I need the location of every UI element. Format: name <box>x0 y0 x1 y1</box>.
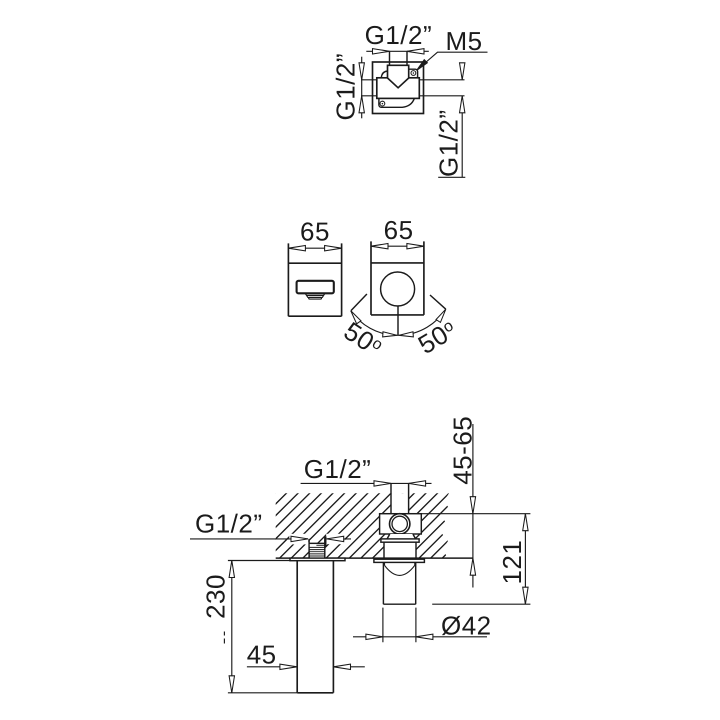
pipe bottom edge + ext line <box>297 692 333 694</box>
M5 leader and arrow <box>418 52 488 69</box>
label G1/2 left (rotated) <box>331 53 361 121</box>
arc center arrows <box>383 332 397 338</box>
main valve body rect <box>377 78 420 99</box>
spout slot <box>297 281 334 294</box>
left dimension line <box>361 57 363 119</box>
svg-text:Ø42: Ø42 <box>441 611 492 641</box>
stem extension lines (top G1/2 port) <box>390 51 408 65</box>
spout front square <box>288 243 341 316</box>
right screw tab <box>409 69 418 78</box>
label G1/2 right (rotated) <box>434 109 464 177</box>
swing arc <box>351 309 446 335</box>
neck trapezoid <box>387 534 416 539</box>
45-65 dimension <box>472 424 474 588</box>
outer square housing (plan view) <box>373 62 424 114</box>
svg-text:230: 230 <box>201 574 231 619</box>
spout threaded nipple <box>309 543 325 558</box>
dashes <box>223 632 225 644</box>
bottom-left tab with rounded corner and large arc <box>379 98 414 107</box>
aerator <box>305 294 325 298</box>
chrome tube <box>383 562 415 604</box>
body-top reference ext line <box>421 513 530 515</box>
left swing line <box>351 294 367 311</box>
left shoulder arc <box>381 71 387 78</box>
svg-text:G1/2”: G1/2” <box>365 20 433 50</box>
under-wall plate <box>374 559 425 562</box>
escutcheon <box>384 542 416 558</box>
svg-text:G1/2”: G1/2” <box>195 509 263 539</box>
spout G1/2 label + dimension <box>190 538 308 540</box>
valve front square <box>371 241 424 315</box>
valve ball (double circle) <box>390 514 410 534</box>
svg-text:G1/2”: G1/2” <box>331 53 361 121</box>
230 dimension <box>228 560 291 562</box>
top dimension line G1/2 <box>366 50 429 52</box>
foot line under rotated text <box>438 176 465 178</box>
wall bottom face line <box>276 557 474 559</box>
svg-text:M5: M5 <box>446 26 483 56</box>
V-notch top piece <box>388 65 409 88</box>
right dim lower arrow with tail <box>461 96 463 178</box>
valve body <box>380 514 422 534</box>
arc end arrows <box>349 309 361 323</box>
handle circle <box>381 272 415 306</box>
45 dimension <box>247 666 297 668</box>
right extension lines <box>419 80 464 96</box>
right dim upper arrow <box>461 63 463 80</box>
stem G1/2 dimension <box>301 482 432 484</box>
tube-bottom ext line <box>432 603 530 605</box>
diameter 42 dimension <box>383 608 416 643</box>
label 50deg left <box>339 316 388 363</box>
svg-text:G1/2”: G1/2” <box>304 454 372 484</box>
screw hole M5 (top-right) <box>411 71 416 76</box>
valve flange plate <box>381 539 419 542</box>
svg-text:45-65: 45-65 <box>448 416 478 485</box>
hatch clearings <box>391 493 409 514</box>
left extension lines <box>361 80 377 96</box>
121 dimension <box>524 514 526 605</box>
65 dimension (right square) <box>371 245 424 247</box>
handle center line <box>397 306 399 335</box>
label 50deg right <box>413 314 462 360</box>
spout pipe <box>297 561 333 693</box>
65 dimension (left square) <box>288 247 341 249</box>
spout flange plate <box>290 558 345 561</box>
nipple right ext line <box>325 536 327 546</box>
screw hole (bottom-left) <box>380 101 385 106</box>
svg-text:45: 45 <box>247 639 277 669</box>
svg-text:65: 65 <box>384 215 414 245</box>
svg-text:65: 65 <box>300 216 330 246</box>
right swing line <box>430 295 446 309</box>
dome arc in tube <box>385 562 415 575</box>
svg-text:121: 121 <box>497 540 527 585</box>
svg-text:G1/2”: G1/2” <box>434 109 464 177</box>
valve stem (supply) <box>391 483 409 513</box>
